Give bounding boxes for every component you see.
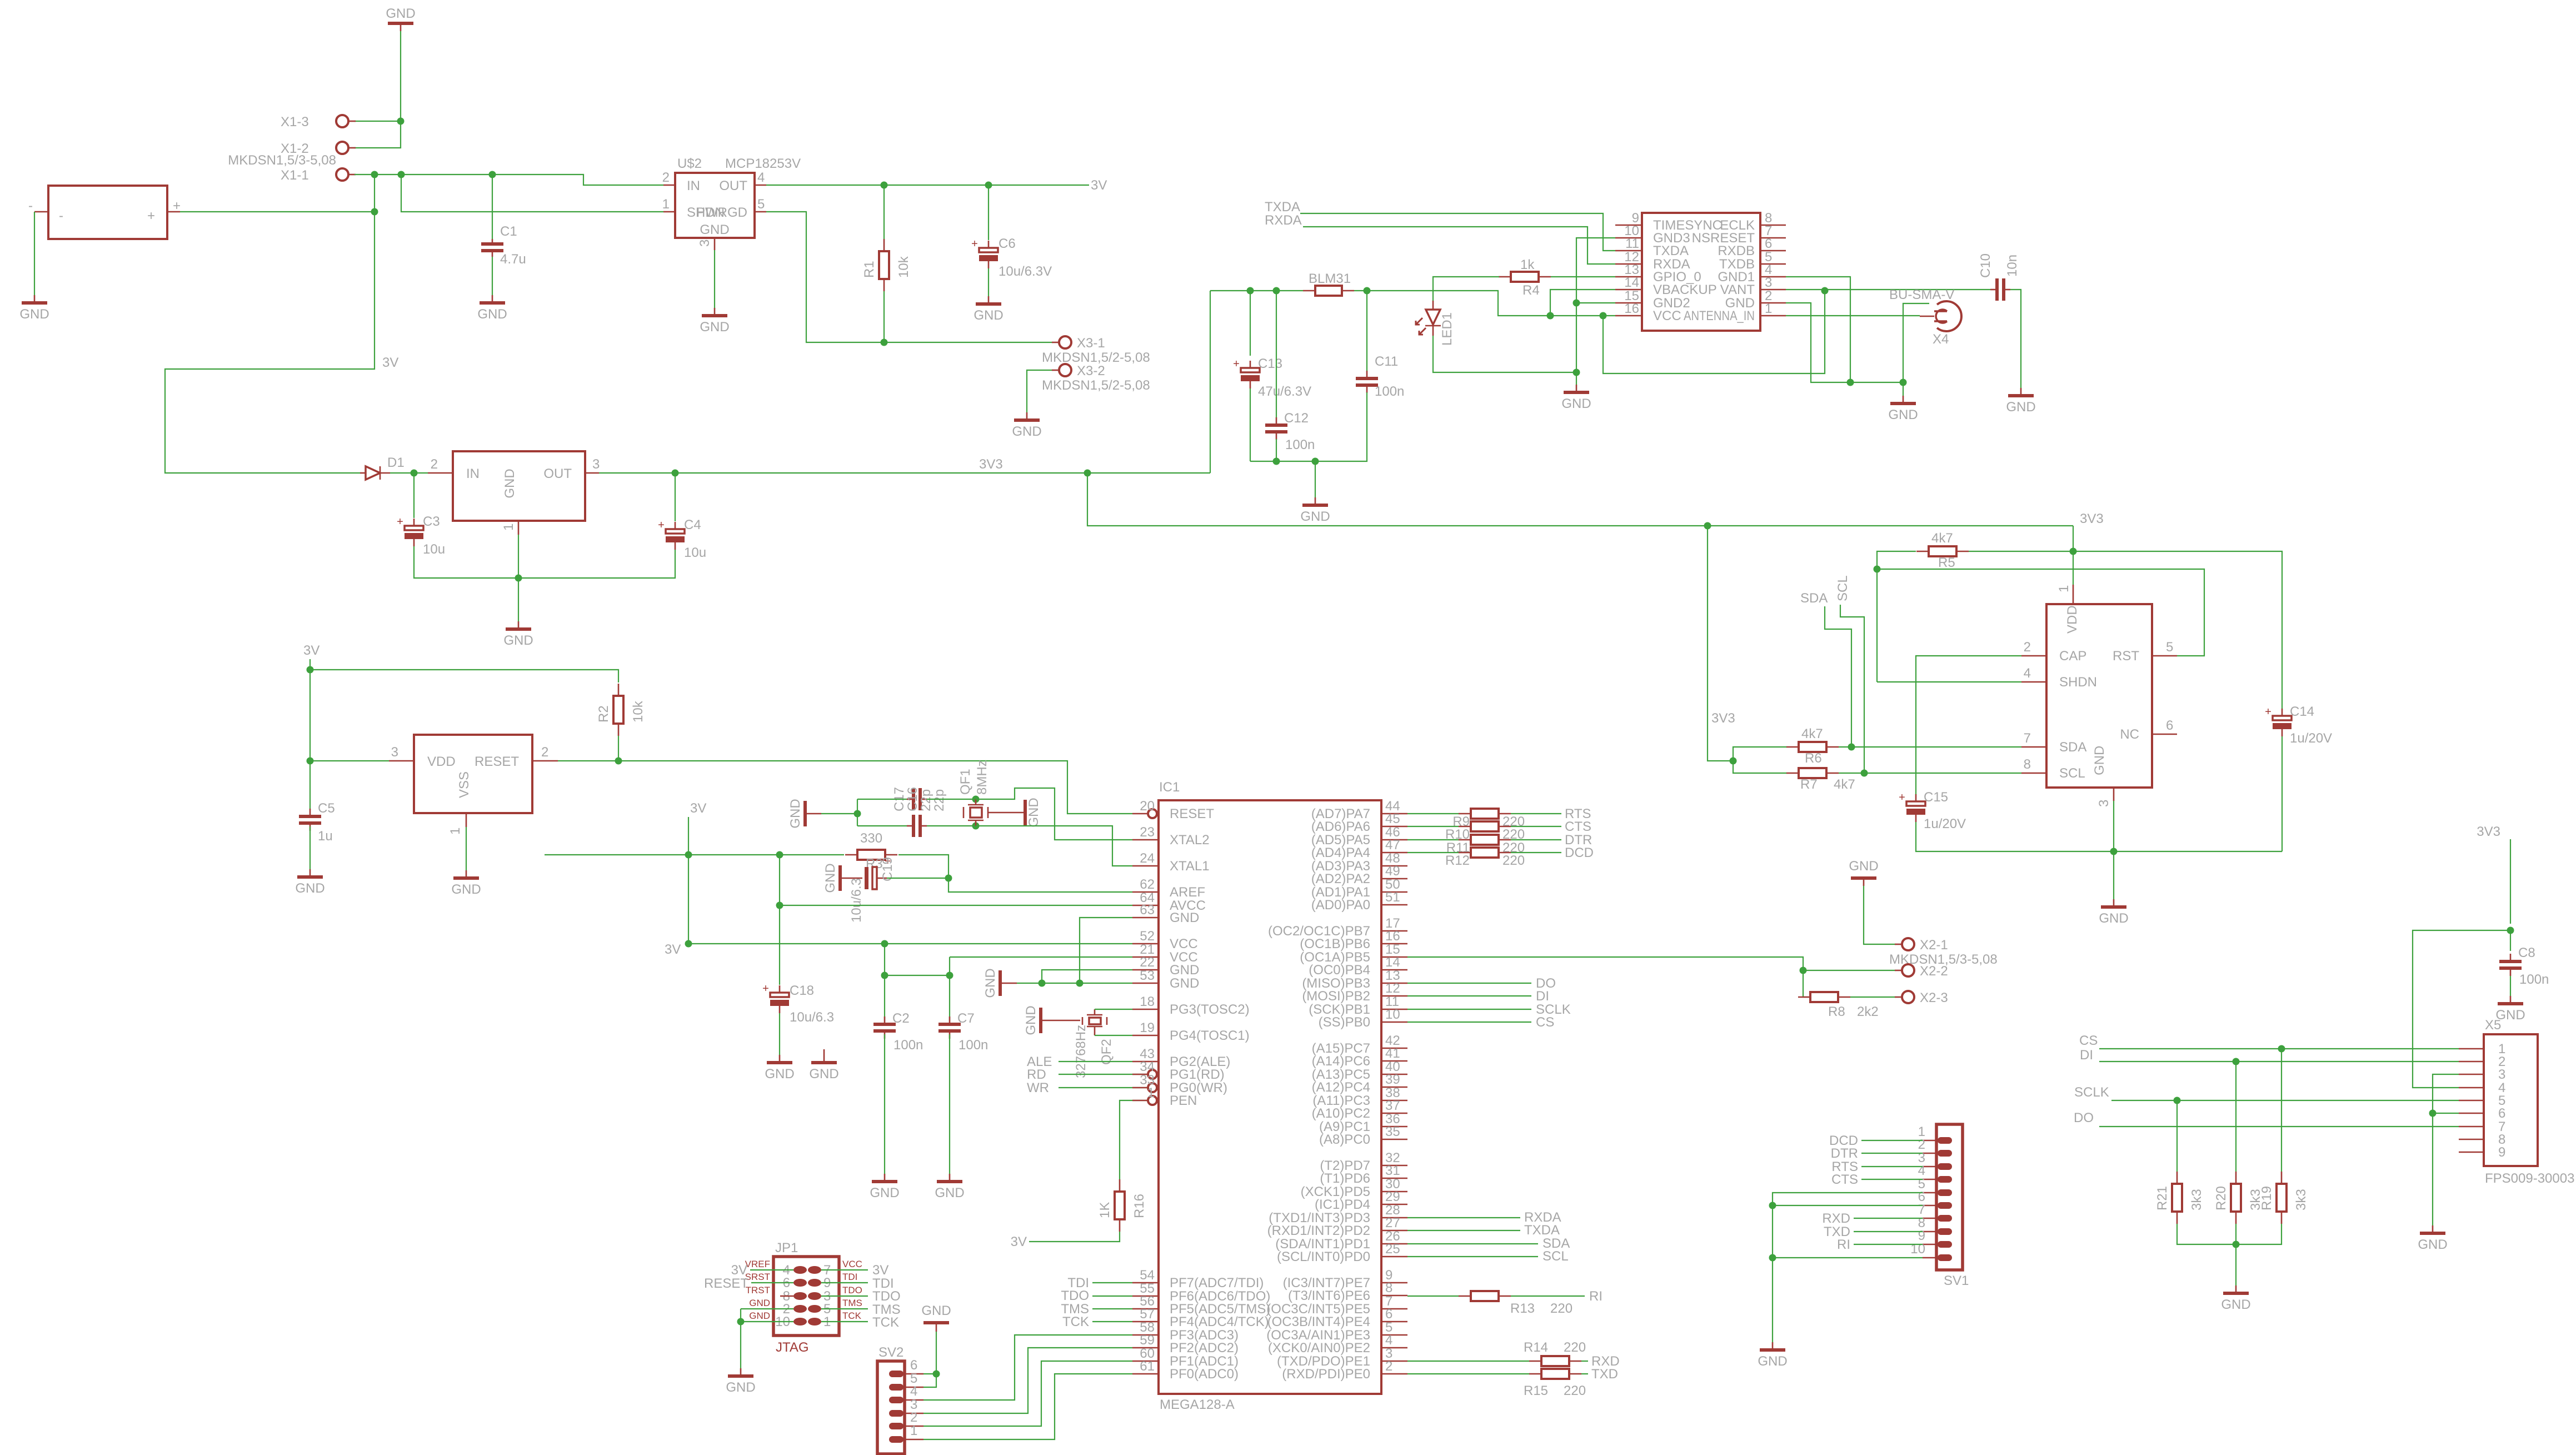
wire R15 to TXD label	[1581, 1373, 1588, 1374]
wire VCC row (3V)	[688, 943, 1132, 944]
wire R20 top	[2235, 1062, 2236, 1172]
wire TDI out	[821, 1282, 868, 1283]
svg-text:20: 20	[1140, 799, 1155, 814]
svg-text:GND: GND	[935, 1185, 964, 1200]
wire VBACKUP jog	[1550, 290, 1615, 316]
svg-text:32768Hz: 32768Hz	[1074, 1025, 1089, 1078]
capacitor C5 1u	[299, 801, 335, 844]
junction 3V/C6	[985, 182, 992, 189]
svg-text:GND: GND	[1012, 424, 1041, 439]
wire WR to PG0	[1059, 1087, 1148, 1088]
svg-text:4: 4	[910, 1384, 917, 1399]
svg-text:22p: 22p	[932, 789, 947, 811]
svg-text:3V: 3V	[1011, 1234, 1027, 1249]
svg-text:3V: 3V	[382, 355, 398, 370]
wire gnd junction down	[1903, 382, 1904, 396]
wire R9 to RTS label	[1511, 813, 1561, 814]
capacitor C16 22p	[905, 787, 947, 811]
svg-text:SCL: SCL	[1542, 1249, 1569, 1264]
resistor R8 2k2	[1798, 992, 1879, 1019]
capacitor C6	[971, 236, 1052, 279]
ground left of load caps (rotated)	[788, 799, 821, 828]
junction VCC row / C2	[881, 940, 888, 948]
svg-text:23: 23	[1140, 825, 1155, 840]
junction battery plus / D1 branch	[371, 208, 378, 216]
wire RD to PG1	[1059, 1074, 1148, 1075]
svg-text:U$2: U$2	[677, 156, 702, 171]
svg-text:(AD2)PA2: (AD2)PA2	[1311, 871, 1370, 886]
svg-text:X2-2: X2-2	[1920, 964, 1948, 979]
svg-text:SCLK: SCLK	[2074, 1085, 2109, 1100]
svg-text:PF4(ADC4/TCK): PF4(ADC4/TCK)	[1170, 1314, 1269, 1329]
pin header JP1 JTAG body	[745, 1240, 862, 1355]
pin stub TRST	[780, 1295, 793, 1297]
svg-text:GND: GND	[1561, 396, 1591, 411]
junction AVCC/C18	[776, 902, 783, 909]
wire regulator pin1 to ground	[518, 535, 519, 621]
wire R5 left to SHDN vertical	[1877, 551, 1916, 682]
resistor R19 3k3	[2259, 1172, 2309, 1224]
svg-text:BLM31: BLM31	[1309, 271, 1351, 286]
svg-text:2: 2	[431, 457, 438, 472]
capacitor C15	[1899, 790, 1966, 831]
svg-text:GND: GND	[2418, 1237, 2447, 1252]
svg-text:CTS: CTS	[1565, 819, 1591, 834]
svg-text:X5: X5	[2485, 1018, 2501, 1033]
junction VCC row bottom of 3V vertical	[685, 940, 692, 948]
wire C3 to ground row	[414, 546, 675, 578]
svg-text:R14: R14	[1524, 1340, 1548, 1355]
wire C7 to ground	[949, 1034, 950, 1174]
wire pin47 to R12	[1407, 852, 1459, 853]
junction X1-1/C1	[489, 171, 496, 178]
svg-text:2: 2	[2024, 640, 2031, 655]
wire D1 cathode to regulator IN	[390, 472, 428, 474]
capacitor C1	[481, 175, 526, 295]
wire pin46 to R11	[1407, 839, 1459, 840]
junction 3V/VDD row	[307, 758, 314, 765]
svg-text:3V: 3V	[303, 643, 319, 658]
capacitor C2 100n	[873, 1011, 923, 1053]
svg-text:X4: X4	[1933, 332, 1949, 347]
junction VBACKUP tap	[1547, 312, 1554, 320]
svg-text:GND: GND	[2006, 400, 2035, 415]
svg-text:CAP: CAP	[2059, 649, 2086, 664]
svg-text:19: 19	[1140, 1020, 1155, 1035]
wire R12 to DCD label	[1511, 852, 1561, 853]
svg-text:220: 220	[1564, 1340, 1586, 1355]
wire C11 bottom and gnd tie	[1250, 392, 1367, 461]
wire TXD to SV1	[1854, 1231, 1923, 1232]
wire battery minus to ground	[34, 212, 35, 295]
svg-text:10n: 10n	[2005, 255, 2020, 277]
wire TMS out	[821, 1308, 868, 1309]
svg-text:GND: GND	[1170, 910, 1199, 925]
svg-text:10k: 10k	[896, 256, 911, 278]
svg-text:GND: GND	[1758, 1354, 1787, 1369]
svg-text:GND: GND	[477, 307, 507, 322]
svg-text:1u: 1u	[318, 829, 333, 844]
svg-text:1: 1	[501, 524, 516, 531]
junction CS/R19	[2278, 1045, 2285, 1053]
svg-text:C11: C11	[1375, 354, 1398, 369]
wire 3V3 to C8/X5	[2510, 839, 2511, 924]
svg-text:R12: R12	[1445, 853, 1470, 868]
svg-text:(AD6)PA6: (AD6)PA6	[1311, 819, 1370, 834]
junction SCLK/R21	[2174, 1097, 2181, 1104]
wire C18 branch vertical	[779, 855, 780, 985]
wire C11 top	[1366, 291, 1367, 371]
svg-text:C2: C2	[892, 1011, 910, 1026]
svg-text:PG3(TOSC2): PG3(TOSC2)	[1170, 1002, 1250, 1017]
wire PB to DO label	[1407, 983, 1531, 984]
wire C13 bottom	[1250, 388, 1251, 461]
wire SV2 pin3 to PF2	[923, 1348, 1132, 1413]
ground SPI pullups	[2221, 1285, 2250, 1312]
svg-text:41: 41	[1385, 1046, 1400, 1061]
wire SV1 pin6 gnd	[1773, 1205, 1923, 1206]
wire SCLK to X5 pin5	[2111, 1100, 2459, 1101]
svg-text:3V3: 3V3	[2080, 511, 2104, 526]
wire GND to pad X2-1	[1864, 886, 1895, 944]
svg-text:2: 2	[910, 1410, 917, 1425]
svg-text:X1-3: X1-3	[281, 114, 309, 129]
wire SV1 pin5 gnd	[1773, 1193, 1923, 1342]
svg-text:1: 1	[662, 197, 670, 212]
wire TDI to PF7	[1092, 1282, 1132, 1283]
junction R5/VDD node	[2070, 548, 2077, 555]
wire R8 to pad X2-3	[1850, 996, 1895, 998]
junction VANT feed tap	[1600, 312, 1607, 320]
wire TCK out	[821, 1321, 868, 1322]
ground C6	[974, 296, 1003, 323]
svg-text:VDD: VDD	[427, 754, 456, 769]
junction pullup gnd	[2233, 1241, 2240, 1248]
junction 3V/R3 row	[685, 851, 692, 859]
svg-text:(A14)PC6: (A14)PC6	[1312, 1054, 1370, 1069]
junction SCL label tap	[1861, 770, 1868, 777]
junction C4/3V3 rail	[672, 470, 679, 477]
wire 3V to R1	[883, 185, 885, 240]
svg-text:6: 6	[2498, 1106, 2505, 1121]
wire GND to caps	[821, 813, 857, 814]
wire R10 to CTS label	[1511, 826, 1561, 827]
wire SV2 gnd vertical	[923, 1332, 936, 1387]
capacitor C3	[397, 514, 445, 557]
svg-text:GND: GND	[503, 633, 533, 648]
svg-text:330: 330	[860, 831, 882, 846]
svg-text:4: 4	[1918, 1163, 1925, 1178]
svg-text:8MHz: 8MHz	[975, 760, 990, 795]
wire DCD to SV1	[1861, 1140, 1923, 1141]
svg-text:TMS: TMS	[842, 1298, 862, 1308]
svg-text:6: 6	[1765, 236, 1772, 251]
wire GND pin2 path	[1786, 303, 1850, 382]
resistor R5 4k7	[1916, 531, 1969, 570]
svg-text:WR: WR	[1027, 1080, 1049, 1095]
svg-text:47u/6.3V: 47u/6.3V	[1258, 384, 1311, 399]
svg-text:RESET: RESET	[475, 754, 519, 769]
wire crystal bottom to XTAL1	[976, 826, 1132, 866]
svg-text:VREF: VREF	[745, 1259, 770, 1269]
resistor R15 220	[1524, 1369, 1586, 1398]
svg-text:PF7(ADC7/TDI): PF7(ADC7/TDI)	[1170, 1275, 1264, 1290]
svg-text:63: 63	[1140, 903, 1155, 918]
wire pin21 jog down	[949, 957, 950, 975]
regulator U$2 MCP18253V	[662, 156, 801, 250]
svg-text:VSS: VSS	[457, 771, 472, 798]
wire C16 to crystal	[927, 799, 976, 800]
wire 3V3 pullup branch	[1708, 526, 1733, 761]
wire BLM31 to VCC corner	[1354, 291, 1615, 316]
junction RESET/R2	[615, 758, 622, 765]
wire R11 to DTR label	[1511, 839, 1561, 840]
svg-text:16: 16	[1624, 301, 1639, 316]
wire R4 to LED	[1433, 277, 1499, 301]
wire R3 to AREF	[898, 855, 1132, 892]
svg-text:R2: R2	[596, 705, 611, 722]
svg-text:24: 24	[1140, 851, 1155, 866]
svg-text:RESET: RESET	[704, 1276, 748, 1291]
wire C2 to ground	[884, 1034, 885, 1174]
wire R1 to X3-1 row	[883, 291, 885, 342]
wire VANT to C10	[1825, 289, 1990, 290]
junction tie/C7	[946, 972, 953, 979]
wire 3V to VREF	[750, 1269, 793, 1270]
svg-text:4: 4	[1385, 1333, 1392, 1348]
junction crystal top	[972, 796, 980, 803]
svg-text:6: 6	[910, 1358, 917, 1373]
svg-text:3: 3	[697, 240, 712, 247]
svg-text:OUT: OUT	[719, 178, 747, 193]
svg-text:3: 3	[1765, 275, 1772, 290]
svg-text:TDO: TDO	[1061, 1288, 1089, 1303]
wire R3 row left segment	[545, 854, 844, 855]
svg-text:3: 3	[2498, 1067, 2505, 1082]
wire C8 top	[2510, 930, 2511, 951]
capacitor C8 100n	[2499, 945, 2549, 987]
svg-text:X3-1: X3-1	[1077, 336, 1105, 351]
junction X1-1/battery vertical	[371, 171, 378, 178]
svg-text:100n: 100n	[2519, 972, 2549, 987]
ground U$2	[700, 308, 729, 335]
ground near X1 top	[386, 6, 415, 31]
svg-text:SCL: SCL	[2059, 766, 2085, 781]
svg-text:14: 14	[1624, 275, 1639, 290]
wire QF2 to PG4(TOSC1)	[1095, 1035, 1132, 1036]
svg-text:45: 45	[1385, 811, 1400, 826]
svg-text:3V3: 3V3	[979, 457, 1003, 472]
svg-text:CS: CS	[2079, 1033, 2098, 1048]
svg-text:25: 25	[1385, 1242, 1400, 1257]
wire VANT feed	[1603, 291, 1825, 373]
ground C1	[477, 295, 507, 322]
wire GPIO_0 to R4	[1551, 276, 1615, 277]
svg-text:(T3/INT6)PE6: (T3/INT6)PE6	[1288, 1288, 1370, 1303]
svg-text:GND: GND	[749, 1311, 770, 1321]
resistor R14 220	[1524, 1340, 1586, 1366]
wire C7 branch	[949, 975, 950, 1022]
svg-text:3k3: 3k3	[2189, 1189, 2204, 1210]
svg-text:C15: C15	[1924, 790, 1948, 805]
svg-text:BU-SMA-V: BU-SMA-V	[1889, 287, 1954, 302]
connector pad X1-1	[281, 168, 356, 183]
svg-text:29: 29	[1385, 1189, 1400, 1204]
svg-text:1u/20V: 1u/20V	[2290, 731, 2332, 746]
svg-text:GND: GND	[823, 863, 838, 893]
svg-text:GND: GND	[870, 1185, 899, 1200]
svg-text:DTR: DTR	[1831, 1146, 1858, 1161]
junction crystal bottom	[972, 823, 980, 830]
junction R1/X3-1 row	[881, 339, 888, 346]
junction R3 row / C18 branch	[776, 851, 783, 859]
svg-text:61: 61	[1140, 1359, 1155, 1374]
ground left of crystal QF2 (rotated)	[1024, 1005, 1080, 1035]
svg-text:3V3: 3V3	[1711, 711, 1735, 726]
svg-text:18: 18	[1140, 994, 1155, 1009]
svg-text:C6: C6	[999, 236, 1016, 251]
svg-text:220: 220	[1502, 853, 1525, 868]
svg-text:(RXD1/INT2)PD2: (RXD1/INT2)PD2	[1267, 1223, 1370, 1238]
wire PD to TXDA label	[1407, 1230, 1520, 1231]
svg-text:GND: GND	[788, 799, 803, 828]
wire TMS to PF5	[1092, 1308, 1132, 1309]
svg-text:GND: GND	[2099, 911, 2128, 926]
wire RTC GND pin to rail	[2113, 801, 2114, 899]
svg-text:PG1(RD): PG1(RD)	[1170, 1067, 1225, 1082]
svg-text:IN: IN	[687, 178, 700, 193]
svg-text:TDO: TDO	[872, 1289, 901, 1304]
svg-text:1K: 1K	[1097, 1202, 1112, 1218]
svg-text:OUT: OUT	[543, 466, 572, 481]
svg-text:12: 12	[1385, 981, 1400, 996]
wire CAP to C15	[1916, 656, 2021, 795]
svg-text:(OC0)PB4: (OC0)PB4	[1309, 963, 1370, 978]
wire C18 to ground	[779, 1013, 780, 1055]
svg-text:C16: C16	[905, 787, 920, 811]
svg-text:IN: IN	[466, 466, 480, 481]
svg-text:54: 54	[1140, 1268, 1155, 1283]
svg-text:MKDSN1,5/3-5,08: MKDSN1,5/3-5,08	[228, 153, 336, 168]
junction regulator GND row	[515, 575, 522, 582]
svg-text:1: 1	[448, 828, 463, 835]
svg-text:(A10)PC2: (A10)PC2	[1312, 1106, 1370, 1121]
svg-text:VCC: VCC	[842, 1259, 862, 1269]
wire GND2 to vertical	[1576, 302, 1615, 303]
svg-text:PF2(ADC2): PF2(ADC2)	[1170, 1341, 1239, 1356]
wire GND row 53	[1017, 983, 1132, 984]
svg-text:RD: RD	[1027, 1067, 1046, 1082]
junction X4 shield gnd	[1900, 379, 1907, 386]
resistor R2 10k	[596, 684, 646, 736]
wire 3V vertical	[309, 659, 311, 810]
svg-text:VCC: VCC	[1170, 936, 1198, 951]
svg-text:10u/6.3: 10u/6.3	[790, 1010, 834, 1025]
svg-text:GND: GND	[1170, 976, 1199, 991]
svg-text:TDI: TDI	[842, 1272, 857, 1282]
resistor R12 220	[1459, 848, 1511, 858]
ground GPS logic	[1561, 385, 1591, 411]
wire PB to CS label	[1407, 1022, 1531, 1023]
wire JP1 gnd vertical	[740, 1309, 741, 1368]
wire SHDN row	[1877, 681, 2021, 682]
svg-text:59: 59	[1140, 1333, 1155, 1348]
wire R16 to 3V label	[1029, 1232, 1120, 1242]
svg-text:(OC3B/INT4)PE4: (OC3B/INT4)PE4	[1267, 1314, 1370, 1329]
wire ALE to PG2	[1059, 1061, 1132, 1062]
svg-text:+: +	[147, 208, 155, 223]
svg-text:62: 62	[1140, 877, 1155, 892]
svg-text:2k2: 2k2	[1857, 1004, 1879, 1019]
wire pullup bottoms tie	[2177, 1224, 2282, 1244]
wire RXD to SV1	[1854, 1218, 1923, 1219]
junction SDA label tap	[1848, 744, 1855, 751]
junction VCC/C12	[1273, 287, 1280, 295]
svg-text:9: 9	[1918, 1228, 1925, 1243]
svg-text:C10: C10	[1978, 253, 1993, 278]
svg-text:RXDB: RXDB	[1718, 243, 1755, 258]
svg-text:C18: C18	[790, 983, 814, 998]
wire VCC pin21 branch	[950, 956, 1132, 958]
svg-text:C8: C8	[2518, 945, 2535, 960]
wire X3-2 to ground	[1027, 370, 1052, 412]
svg-text:31: 31	[1385, 1163, 1400, 1178]
svg-text:6: 6	[2166, 718, 2173, 733]
capacitor C13	[1233, 356, 1311, 399]
wire TDO out	[821, 1295, 868, 1297]
ground SV1	[1758, 1342, 1787, 1369]
resistor R21 3k3	[2155, 1172, 2204, 1224]
wire C3 branch	[413, 473, 415, 518]
svg-text:10u/6.3V: 10u/6.3V	[999, 264, 1052, 279]
svg-text:R16: R16	[1132, 1194, 1147, 1218]
svg-text:RESET: RESET	[1170, 806, 1214, 821]
svg-text:C14: C14	[2290, 704, 2314, 719]
wire pin22 GND branch	[1042, 970, 1132, 983]
wire 3V3 down to R5 row	[2073, 526, 2074, 551]
ground symbol (unconnected, right of C18)	[809, 1049, 838, 1082]
wire VDD to 3V3	[2073, 551, 2074, 585]
wire PB to SCLK label	[1407, 1009, 1531, 1010]
svg-text:1k: 1k	[1520, 257, 1535, 272]
wire TDO to PF6	[1092, 1295, 1132, 1297]
wire R5 to 3V3	[1969, 551, 2073, 552]
connector pad X2-3	[1895, 990, 1948, 1005]
svg-text:X2-1: X2-1	[1920, 938, 1948, 953]
svg-text:100n: 100n	[958, 1038, 988, 1053]
microcontroller IC1 MEGA128-A body	[1132, 780, 1407, 1412]
svg-text:VBACKUP: VBACKUP	[1653, 282, 1717, 297]
svg-text:(AD4)PA4: (AD4)PA4	[1311, 845, 1370, 860]
svg-text:R5: R5	[1938, 555, 1955, 570]
resistor R13 220	[1459, 1291, 1572, 1316]
crystal QF1 8MHz	[958, 760, 990, 826]
pin header SV1 body	[1910, 1124, 1969, 1288]
svg-text:R15: R15	[1524, 1383, 1548, 1398]
ground X5	[2418, 1225, 2447, 1252]
svg-text:GND: GND	[19, 307, 49, 322]
wire DI to X5 pin2	[2099, 1061, 2459, 1062]
wire to R6	[1733, 747, 1787, 761]
svg-text:8: 8	[1385, 1280, 1392, 1295]
wire C6 to ground	[988, 268, 989, 296]
svg-text:PG4(TOSC1): PG4(TOSC1)	[1170, 1028, 1250, 1043]
wire VSS to ground	[466, 827, 467, 870]
capacitor C17 22p	[892, 787, 933, 837]
wire R21 top	[2176, 1100, 2178, 1172]
svg-text:4k7: 4k7	[1834, 777, 1855, 792]
svg-text:R13: R13	[1510, 1301, 1535, 1316]
